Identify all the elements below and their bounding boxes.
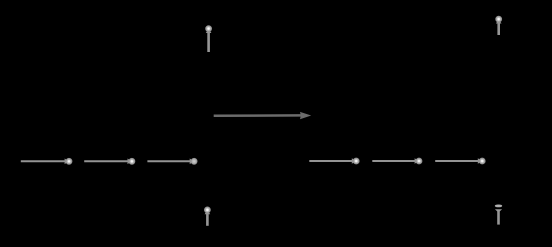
- spin arrow H1 node: [66, 158, 72, 164]
- spin arrow H4 node: [353, 158, 359, 164]
- spin arrow S3 arrowhead: [205, 210, 211, 214]
- spin arrow S3 (bottom middle, up) : wire: [206, 212, 209, 226]
- spin arrow S2 node: [496, 16, 502, 22]
- spin arrow H6 arrowhead: [478, 158, 482, 164]
- spin arrow S1 node: [206, 26, 212, 32]
- spin arrow H4 arrowhead: [352, 158, 356, 164]
- spin arrow H2 arrowhead: [128, 159, 132, 165]
- spin arrow H4 (bottom right 1, right) : wire: [309, 160, 353, 162]
- spin arrow H1 (bottom left 1, right) : wire: [21, 160, 66, 162]
- spin arrow H5 arrowhead: [415, 158, 419, 164]
- spin arrow H1 arrowhead: [65, 159, 69, 165]
- spin arrow S3 node: [204, 207, 210, 213]
- spin arrow H2 (bottom left 2, right) : wire: [84, 160, 129, 162]
- spin arrow H3 (bottom left 3, right, dim node) : wire: [147, 160, 191, 162]
- spin arrow S1 (top middle, up) : wire: [207, 31, 210, 53]
- spin arrow H5 (bottom right 2, right) : wire: [372, 160, 416, 162]
- spin arrow S4 arrowhead (funnel): [495, 209, 502, 211]
- spin arrow H6 node: [479, 158, 485, 164]
- spin arrow S2 arrowhead: [496, 19, 502, 23]
- spin arrow H3 node: [191, 158, 197, 164]
- spin arrow S2 (top right, up) : wire: [497, 21, 500, 35]
- spin arrow H6 (bottom right 3, right) : wire: [435, 160, 479, 162]
- spin arrow S4 node (squashed ellipse): [495, 205, 502, 207]
- spin arrow H5 node: [416, 158, 422, 164]
- spin arrow H2 node: [129, 158, 135, 164]
- reaction arrow (center, pointing right): [214, 112, 312, 119]
- spin arrow H3 arrowhead: [190, 159, 194, 165]
- spin arrow S4 (bottom right, up, flattened node) : wire: [497, 211, 500, 225]
- spin arrow S1 arrowhead: [206, 29, 212, 33]
